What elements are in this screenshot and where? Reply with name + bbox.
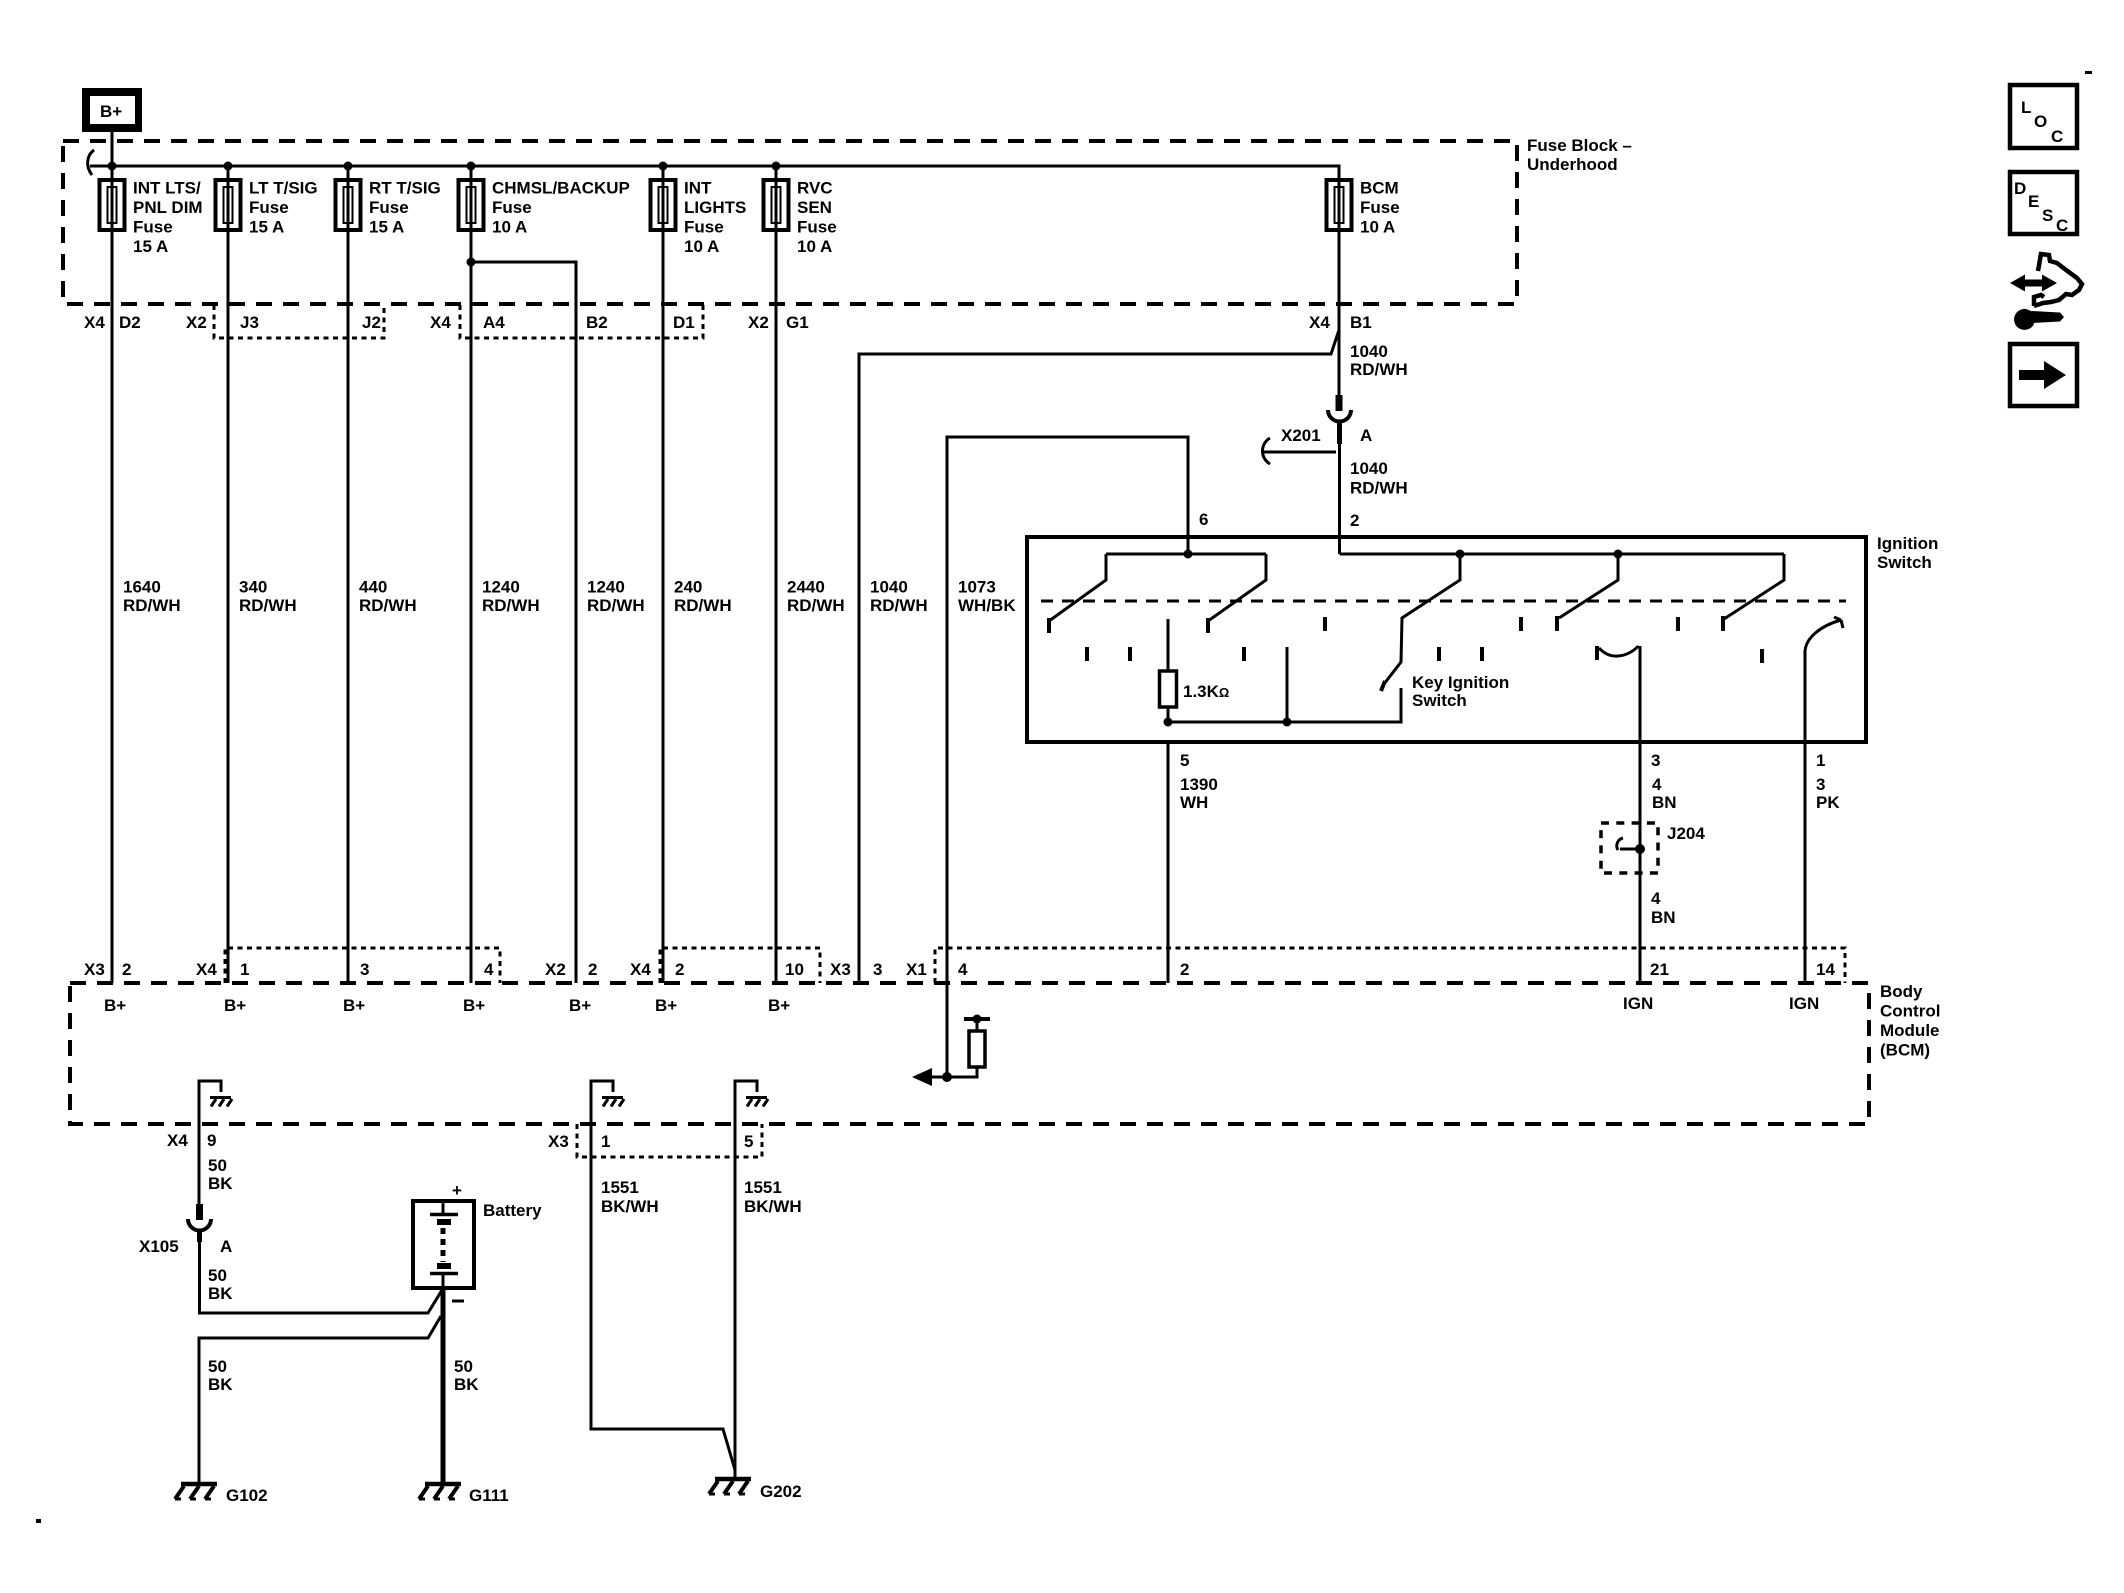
resistor 1.3K in ignition switch xyxy=(1160,619,1177,722)
svg-text:B+: B+ xyxy=(100,102,122,121)
icon DESC button xyxy=(2010,172,2077,235)
wire fuse A4 leg xyxy=(470,166,473,235)
svg-text:B+: B+ xyxy=(463,996,485,1015)
fuse block pin row: connector X2 pins J3 J2 xyxy=(186,313,381,332)
label fuse INT LTS/PNL DIM xyxy=(133,179,203,257)
svg-text:10 A: 10 A xyxy=(1360,218,1395,237)
BCM pin X1-4 labels xyxy=(906,960,968,979)
svg-text:X2: X2 xyxy=(545,960,566,979)
svg-text:10 A: 10 A xyxy=(492,218,527,237)
svg-text:Underhood: Underhood xyxy=(1527,155,1618,174)
svg-text:RD/WH: RD/WH xyxy=(674,596,732,615)
wire 4 BN switch pin 3 to BCM pin 21 xyxy=(1639,742,1642,983)
label wire 1390 WH xyxy=(1180,775,1218,812)
wire fuse G1 leg xyxy=(775,166,778,235)
svg-text:RD/WH: RD/WH xyxy=(239,596,297,615)
icon forward arrow button xyxy=(2010,344,2077,406)
label connector X201 and cavity A xyxy=(1262,426,1372,464)
fuse CHMSL/BACKUP 10A xyxy=(459,180,484,230)
BCM bottom connector X3 pins 1,5 labels xyxy=(548,1132,753,1151)
svg-text:Fuse: Fuse xyxy=(684,218,724,237)
label wire 1040 RD/WH above X201 xyxy=(1350,342,1408,379)
svg-text:6: 6 xyxy=(1199,510,1208,529)
fuse INT LTS/PNL DIM 15A xyxy=(100,180,125,230)
svg-text:1: 1 xyxy=(601,1132,610,1151)
label Fuse Block - Underhood xyxy=(1527,136,1632,174)
ground G111 xyxy=(419,1484,461,1499)
switch pin 3 contact arc xyxy=(1597,646,1639,660)
connector X105 pin A inline connector xyxy=(188,1204,211,1242)
svg-text:X3: X3 xyxy=(830,960,851,979)
svg-text:X4: X4 xyxy=(630,960,651,979)
switch contact arm 2 xyxy=(1208,554,1266,633)
node IGN internal labels xyxy=(1623,994,1819,1013)
svg-text:B+: B+ xyxy=(768,996,790,1015)
switch key ignition contact arm xyxy=(1381,554,1460,691)
svg-text:S: S xyxy=(2042,206,2053,225)
label wire 50 BK upper xyxy=(208,1156,233,1193)
svg-text:G102: G102 xyxy=(226,1486,268,1505)
svg-text:B1: B1 xyxy=(1350,313,1372,332)
stray mark top right xyxy=(2085,71,2092,74)
svg-text:1: 1 xyxy=(240,960,249,979)
label wire 1551 BK/WH left xyxy=(601,1178,659,1216)
svg-text:INT: INT xyxy=(684,179,712,198)
wire 440 RD/WH fuse J2 to BCM 3 xyxy=(347,230,350,983)
svg-text:X105: X105 xyxy=(139,1237,179,1256)
svg-text:X201: X201 xyxy=(1281,426,1321,445)
svg-text:G1: G1 xyxy=(786,313,809,332)
fuse block pin row: connector X4 pin B1 xyxy=(1309,313,1372,332)
ignition switch internal dashed gang line xyxy=(1041,600,1846,603)
BCM pin X4-1 labels xyxy=(196,960,249,979)
svg-text:3: 3 xyxy=(1816,775,1825,794)
icon LOC button xyxy=(2010,85,2077,148)
svg-text:A: A xyxy=(1360,426,1372,445)
fuse block dashed outline (Fuse Block - Underhood) xyxy=(63,141,1517,304)
wire fuse D2 leg xyxy=(111,166,114,235)
svg-text:PNL DIM: PNL DIM xyxy=(133,198,203,217)
svg-text:1390: 1390 xyxy=(1180,775,1218,794)
wire 1390 WH switch pin 5 to BCM pin 2 xyxy=(1167,742,1170,983)
svg-text:4: 4 xyxy=(484,960,494,979)
wire key switch lower contact to resistor junction xyxy=(1164,647,1402,727)
svg-text:340: 340 xyxy=(239,578,267,597)
label Body Control Module (BCM) xyxy=(1880,982,1940,1060)
switch pin 1 contact arc xyxy=(1805,617,1843,651)
svg-text:X3: X3 xyxy=(548,1132,569,1151)
svg-text:1551: 1551 xyxy=(601,1178,639,1197)
label fuse LT T/SIG xyxy=(249,179,318,237)
svg-text:X1: X1 xyxy=(906,960,927,979)
resistor inside BCM xyxy=(947,1015,990,1078)
label wire 50 BK to G111 xyxy=(454,1357,479,1394)
svg-text:J3: J3 xyxy=(240,313,259,332)
svg-text:Fuse: Fuse xyxy=(1360,198,1400,217)
svg-text:1240: 1240 xyxy=(482,578,520,597)
svg-text:RD/WH: RD/WH xyxy=(1350,479,1408,498)
fuse RVC SEN 10A xyxy=(764,180,789,230)
svg-text:50: 50 xyxy=(208,1156,227,1175)
body control module dashed outline xyxy=(70,983,1869,1124)
label wire 50 BK to G102 xyxy=(208,1357,233,1394)
wire 1040 RD/WH X201 to ignition switch pin 2 xyxy=(1338,444,1341,554)
svg-text:15 A: 15 A xyxy=(369,218,404,237)
svg-text:BN: BN xyxy=(1651,908,1676,927)
svg-text:4: 4 xyxy=(958,960,968,979)
svg-text:BN: BN xyxy=(1652,793,1677,812)
svg-text:10: 10 xyxy=(785,960,804,979)
svg-text:(BCM): (BCM) xyxy=(1880,1041,1930,1060)
svg-text:BK: BK xyxy=(208,1174,233,1193)
wire 1551 BK/WH BCM X3-5 to G202 xyxy=(734,1124,737,1479)
wire 1551 BK/WH BCM X3-1 to G202 xyxy=(591,1124,735,1470)
svg-text:RD/WH: RD/WH xyxy=(123,596,181,615)
wire 1040 RD/WH fuse B1 down to X201 xyxy=(1338,230,1341,396)
svg-text:3: 3 xyxy=(873,960,882,979)
svg-text:D2: D2 xyxy=(119,313,141,332)
svg-text:+: + xyxy=(452,1181,462,1200)
svg-text:SEN: SEN xyxy=(797,198,832,217)
switch contact arm 4 xyxy=(1557,554,1618,631)
wire B+ bus inside fuse block xyxy=(90,166,1339,180)
svg-text:D: D xyxy=(2014,179,2026,198)
icon connector-repair (double arrow, harness outline, wrench) xyxy=(2010,254,2082,333)
connector X4 dotted outline (BCM pins 2,10) xyxy=(660,948,820,983)
svg-text:3: 3 xyxy=(1651,751,1660,770)
junction bus-fuse D2 xyxy=(108,162,117,171)
junction bar 2 middle contact xyxy=(1614,550,1623,559)
svg-text:B+: B+ xyxy=(343,996,365,1015)
label wire 1551 BK/WH right xyxy=(744,1178,802,1216)
label wire 4 BN upper xyxy=(1652,775,1677,812)
junction bus-fuse A4 xyxy=(467,162,476,171)
label wire 1040 RD/WH (left drop) xyxy=(870,578,928,616)
svg-text:L: L xyxy=(2021,98,2031,117)
fuse INT LIGHTS 10A xyxy=(651,180,676,230)
ground symbol inside BCM (X3-5) xyxy=(735,1081,768,1124)
svg-text:B+: B+ xyxy=(655,996,677,1015)
svg-text:D1: D1 xyxy=(673,313,695,332)
BCM pin X3-2 labels xyxy=(84,960,131,979)
svg-text:Fuse: Fuse xyxy=(369,198,409,217)
svg-text:Fuse: Fuse xyxy=(133,218,173,237)
svg-text:B2: B2 xyxy=(586,313,608,332)
svg-text:RD/WH: RD/WH xyxy=(587,596,645,615)
svg-text:Key Ignition: Key Ignition xyxy=(1412,673,1509,692)
svg-text:1: 1 xyxy=(1816,751,1825,770)
svg-text:50: 50 xyxy=(208,1357,227,1376)
ground G102 xyxy=(175,1484,217,1499)
svg-text:BCM: BCM xyxy=(1360,179,1399,198)
svg-text:50: 50 xyxy=(454,1357,473,1376)
svg-text:1551: 1551 xyxy=(744,1178,782,1197)
wire 50 BK G102 branch xyxy=(199,1316,441,1484)
fuse block pin row: connector X4 pin D2 xyxy=(84,313,141,332)
svg-text:B+: B+ xyxy=(104,996,126,1015)
svg-text:BK: BK xyxy=(208,1284,233,1303)
svg-text:14: 14 xyxy=(1816,960,1835,979)
svg-text:1640: 1640 xyxy=(123,578,161,597)
junction bar 2 key contact xyxy=(1456,550,1465,559)
svg-text:RT T/SIG: RT T/SIG xyxy=(369,179,441,198)
svg-text:Fuse: Fuse xyxy=(249,198,289,217)
svg-text:2: 2 xyxy=(1180,960,1189,979)
svg-text:INT LTS/: INT LTS/ xyxy=(133,179,201,198)
fixed contact tick row B xyxy=(1087,647,1762,663)
svg-text:1240: 1240 xyxy=(587,578,625,597)
svg-text:Battery: Battery xyxy=(483,1201,542,1220)
svg-text:10 A: 10 A xyxy=(684,237,719,256)
junction bus-fuse G1 xyxy=(772,162,781,171)
svg-text:5: 5 xyxy=(744,1132,753,1151)
wire 2440 RD/WH fuse G1 to BCM 10 xyxy=(775,230,778,983)
label wire 4 BN lower xyxy=(1651,889,1676,927)
svg-text:1.3KΩ: 1.3KΩ xyxy=(1183,682,1229,701)
label wire 50 BK below X105 xyxy=(208,1266,233,1303)
label wire 1240 RD/WH (A4) xyxy=(482,578,540,616)
svg-text:O: O xyxy=(2034,112,2047,131)
label wire 1073 WH/BK xyxy=(958,578,1016,616)
wire 340 RD/WH fuse J3 to BCM X4-1 xyxy=(227,230,230,983)
svg-text:RD/WH: RD/WH xyxy=(1350,360,1408,379)
svg-text:IGN: IGN xyxy=(1623,994,1653,1013)
svg-text:50: 50 xyxy=(208,1266,227,1285)
connector X2 dotted outline (J3-J2) xyxy=(214,305,384,338)
svg-text:2: 2 xyxy=(1350,511,1359,530)
wire 1073 WH/BK BCM X1-4 to ignition switch pin 6 xyxy=(947,437,1188,983)
svg-text:LT T/SIG: LT T/SIG xyxy=(249,179,318,198)
svg-text:Control: Control xyxy=(1880,1002,1940,1021)
svg-text:PK: PK xyxy=(1816,793,1840,812)
stray mark bottom left xyxy=(36,1519,41,1523)
wire fuse J2 leg xyxy=(347,166,350,235)
svg-text:Switch: Switch xyxy=(1877,553,1932,572)
fuse BCM 10A xyxy=(1327,180,1352,230)
wire ignition switch bar 1 (pin 6 common) xyxy=(1106,553,1266,556)
connector X201 pin A inline connector xyxy=(1328,395,1351,444)
ignition switch box xyxy=(1027,537,1866,742)
node B+ internal labels xyxy=(104,996,790,1015)
connector X4 dotted outline (A4-B2-D1) xyxy=(460,305,703,338)
wire 1640 RD/WH fuse D2 to BCM X3-2 xyxy=(111,230,114,983)
label battery minus terminal xyxy=(452,1300,464,1303)
ground symbol inside BCM (X4-9) xyxy=(199,1081,232,1124)
svg-text:Ignition: Ignition xyxy=(1877,534,1938,553)
svg-text:21: 21 xyxy=(1650,960,1669,979)
svg-text:BK: BK xyxy=(208,1375,233,1394)
svg-text:A: A xyxy=(220,1237,232,1256)
svg-text:Module: Module xyxy=(1880,1021,1940,1040)
junction bus-fuse J3 xyxy=(224,162,233,171)
fuse block pin row: connector X4 pins A4 B2 D1 xyxy=(430,313,695,332)
svg-text:X4: X4 xyxy=(1309,313,1330,332)
svg-text:RVC: RVC xyxy=(797,179,833,198)
svg-text:15 A: 15 A xyxy=(133,237,168,256)
switch contact arm 1 xyxy=(1049,554,1106,633)
fixed contact tick row A xyxy=(1325,617,1678,631)
svg-text:2440: 2440 xyxy=(787,578,825,597)
svg-text:X4: X4 xyxy=(196,960,217,979)
wire 3 PK switch pin 1 to BCM pin 14 xyxy=(1804,742,1807,983)
fuse block pin row: connector X2 pin G1 xyxy=(748,313,809,332)
connector X3 dotted outline (pins 1,5) xyxy=(577,1124,762,1157)
node B+ battery feed symbol xyxy=(82,88,142,132)
switch contact arm 5 xyxy=(1723,554,1784,631)
wire switch pin 3 drop inside box xyxy=(1639,646,1642,742)
svg-text:2: 2 xyxy=(122,960,131,979)
svg-text:WH/BK: WH/BK xyxy=(958,596,1016,615)
connector X1 dotted outline (BCM pins 4..14) xyxy=(935,948,1845,983)
svg-text:B+: B+ xyxy=(569,996,591,1015)
label fuse CHMSL/BACKUP xyxy=(492,179,630,237)
svg-text:RD/WH: RD/WH xyxy=(359,596,417,615)
svg-text:4: 4 xyxy=(1652,775,1662,794)
svg-text:RD/WH: RD/WH xyxy=(870,596,928,615)
ground symbol inside BCM (X3-1) xyxy=(591,1081,624,1124)
svg-text:X3: X3 xyxy=(84,960,105,979)
label fuse RVC SEN xyxy=(797,179,837,257)
wire fuse D1 leg xyxy=(662,166,665,235)
splice J204 xyxy=(1601,823,1658,873)
fuse LT T/SIG 15A xyxy=(216,180,241,230)
svg-text:BK/WH: BK/WH xyxy=(744,1197,802,1216)
label wire 1240 RD/WH (B2) xyxy=(587,578,645,616)
svg-text:BK: BK xyxy=(454,1375,479,1394)
svg-text:Switch: Switch xyxy=(1412,691,1467,710)
svg-text:1040: 1040 xyxy=(1350,342,1388,361)
wire switch pin 1 drop inside box xyxy=(1804,650,1807,742)
svg-text:C: C xyxy=(2051,127,2063,146)
label Key Ignition Switch xyxy=(1412,673,1509,710)
svg-text:X4: X4 xyxy=(167,1131,188,1150)
label wire 3 PK xyxy=(1816,775,1840,812)
wire CHMSL fuse output with branch to B2 xyxy=(467,230,577,983)
svg-text:5: 5 xyxy=(1180,751,1189,770)
svg-text:9: 9 xyxy=(207,1131,216,1150)
wire battery negative to G111 xyxy=(441,1288,446,1484)
label wire 440 RD/WH xyxy=(359,578,417,616)
connector X4 dotted outline (BCM pins 1,3,4) xyxy=(225,948,500,983)
battery xyxy=(413,1201,474,1288)
svg-text:240: 240 xyxy=(674,578,702,597)
svg-text:X2: X2 xyxy=(186,313,207,332)
BCM bottom pin X4-9 labels xyxy=(167,1131,216,1150)
BCM pin X3-3 labels xyxy=(830,960,882,979)
wire BCM pin 4 internal with continuation arrow xyxy=(912,983,952,1086)
wire 240 RD/WH fuse D1 to BCM X4-2 xyxy=(662,230,665,983)
fuse RT T/SIG 15A xyxy=(336,180,361,230)
svg-text:X4: X4 xyxy=(430,313,451,332)
svg-text:440: 440 xyxy=(359,578,387,597)
svg-text:J2: J2 xyxy=(362,313,381,332)
BCM pin X2-2 labels xyxy=(545,960,597,979)
svg-text:1073: 1073 xyxy=(958,578,996,597)
svg-text:G111: G111 xyxy=(469,1486,509,1505)
svg-text:J204: J204 xyxy=(1667,824,1705,843)
svg-text:G202: G202 xyxy=(760,1482,802,1501)
wire 50 BK X105 to battery negative xyxy=(200,1240,443,1313)
svg-text:2: 2 xyxy=(588,960,597,979)
svg-text:4: 4 xyxy=(1651,889,1661,908)
svg-text:BK/WH: BK/WH xyxy=(601,1197,659,1216)
wire fuse J3 leg xyxy=(227,166,230,235)
svg-text:E: E xyxy=(2028,192,2039,211)
label wire 340 RD/WH xyxy=(239,578,297,616)
label connector X105 and cavity A xyxy=(139,1237,232,1256)
label fuse BCM xyxy=(1360,179,1400,237)
svg-text:15 A: 15 A xyxy=(249,218,284,237)
svg-text:10 A: 10 A xyxy=(797,237,832,256)
svg-text:LIGHTS: LIGHTS xyxy=(684,198,746,217)
svg-text:CHMSL/BACKUP: CHMSL/BACKUP xyxy=(492,179,630,198)
svg-text:Fuse: Fuse xyxy=(797,218,837,237)
svg-text:3: 3 xyxy=(360,960,369,979)
svg-text:2: 2 xyxy=(675,960,684,979)
svg-text:X4: X4 xyxy=(84,313,105,332)
svg-text:Body: Body xyxy=(1880,982,1923,1001)
junction bus-fuse J2 xyxy=(344,162,353,171)
label fuse INT LIGHTS xyxy=(684,179,746,257)
svg-text:1040: 1040 xyxy=(870,578,908,597)
svg-text:A4: A4 xyxy=(483,313,505,332)
label wire 240 RD/WH xyxy=(674,578,732,616)
wire curl at bus left end xyxy=(88,150,94,175)
label wire 1640 RD/WH xyxy=(123,578,181,616)
svg-text:RD/WH: RD/WH xyxy=(787,596,845,615)
svg-text:WH: WH xyxy=(1180,793,1208,812)
svg-text:B+: B+ xyxy=(224,996,246,1015)
BCM pin X4-2 labels xyxy=(630,960,684,979)
label fuse RT T/SIG xyxy=(369,179,441,237)
label Ignition Switch xyxy=(1877,534,1938,572)
svg-text:Fuse Block –: Fuse Block – xyxy=(1527,136,1632,155)
ground G202 xyxy=(709,1479,751,1494)
svg-text:Fuse: Fuse xyxy=(492,198,532,217)
svg-text:IGN: IGN xyxy=(1789,994,1819,1013)
svg-text:RD/WH: RD/WH xyxy=(482,596,540,615)
label wire 2440 RD/WH xyxy=(787,578,845,616)
wire from B+ to bus xyxy=(111,132,114,166)
wire 50 BK BCM X4-9 to X105 xyxy=(198,1124,201,1204)
wire ignition switch bar 2 (pin 2 common) xyxy=(1340,553,1785,556)
wire 1040 RD/WH branch to BCM X3-3 xyxy=(859,330,1339,983)
junction pin 6 on bar 1 xyxy=(1184,550,1193,559)
junction bus-fuse D1 xyxy=(659,162,668,171)
svg-text:X2: X2 xyxy=(748,313,769,332)
label wire 1040 RD/WH below X201 xyxy=(1350,459,1408,498)
svg-text:C: C xyxy=(2056,216,2068,235)
svg-text:1040: 1040 xyxy=(1350,459,1388,478)
